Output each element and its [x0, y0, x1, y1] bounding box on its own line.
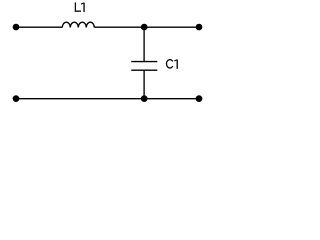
- node: output terminal dot (top right): [196, 24, 203, 31]
- wire: capacitor upper lead: [143, 27, 145, 61]
- wire: bottom rail: [16, 98, 199, 100]
- capacitor C1 bottom plate: [131, 69, 157, 71]
- wire: top-right segment from inductor to output terminal: [94, 26, 199, 28]
- inductor L1 (4 arcs): [62, 22, 94, 27]
- node: bottom right terminal dot: [196, 95, 203, 102]
- node: top junction dot: [141, 24, 148, 31]
- label C1: [166, 60, 177, 69]
- capacitor C1 top plate: [131, 61, 157, 63]
- wire: capacitor lower lead: [143, 70, 145, 99]
- wire: top-left segment from input terminal to inductor: [16, 26, 62, 28]
- label L1: [75, 2, 84, 12]
- node: bottom left terminal dot: [13, 95, 20, 102]
- node: bottom junction dot: [141, 95, 148, 102]
- node: input terminal dot (top left): [13, 24, 20, 31]
